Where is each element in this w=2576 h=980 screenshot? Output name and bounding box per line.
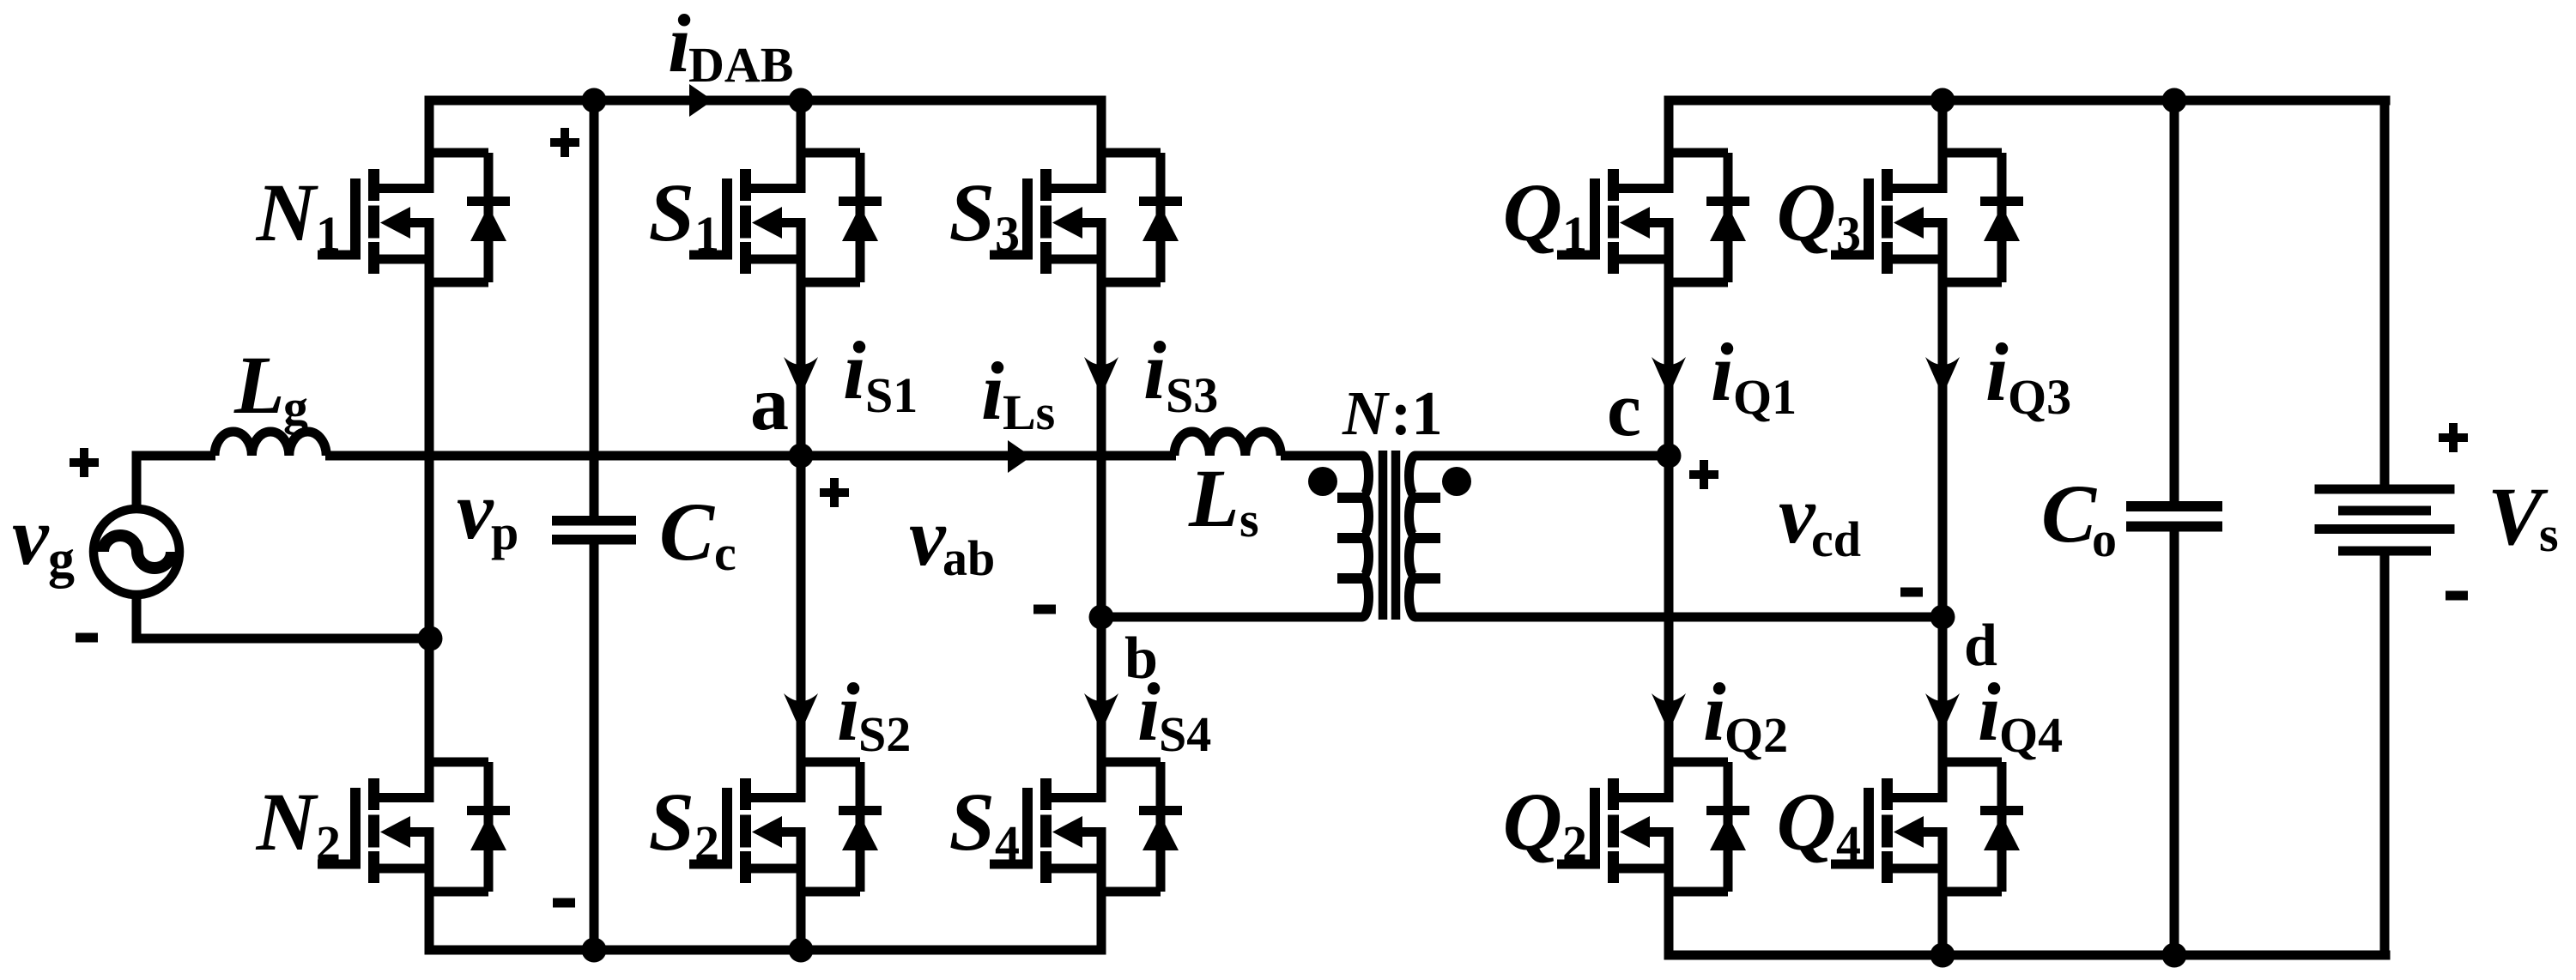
svg-text:Q1: Q1 bbox=[1503, 166, 1587, 262]
arrow iLs bbox=[1008, 440, 1032, 473]
svg-text:vab: vab bbox=[909, 491, 995, 586]
junction top bus S1 leg bbox=[789, 88, 814, 113]
svg-text:Vs: Vs bbox=[2488, 470, 2559, 562]
battery Vs plates bbox=[2315, 485, 2455, 556]
plus vab bbox=[820, 478, 849, 507]
node c junction bbox=[1657, 444, 1682, 469]
minus vcd bbox=[1900, 588, 1923, 597]
wire Q1-Q2 leg upper segment bbox=[1664, 100, 1674, 193]
wire Q3-Q4 leg middle segment bbox=[1938, 218, 1948, 802]
minus Vs bbox=[2446, 591, 2468, 601]
wire S3-S4 leg upper segment bbox=[1097, 100, 1106, 193]
junction bottom bus Cc bbox=[582, 938, 607, 963]
svg-text:N1: N1 bbox=[256, 166, 341, 262]
wire S1-S2 leg lower segment bbox=[797, 827, 806, 950]
svg-text:iQ4: iQ4 bbox=[1978, 666, 2063, 763]
transistor Q2 bbox=[1557, 762, 1749, 892]
wire top bus left bridge bbox=[425, 96, 1106, 106]
node d junction bbox=[1930, 605, 1955, 630]
svg-text:iS2: iS2 bbox=[837, 666, 911, 762]
wire vg plus to Lg bbox=[136, 456, 215, 509]
capacitor Co bottom lead bbox=[2170, 532, 2179, 956]
wire N-leg middle segment bbox=[425, 218, 434, 802]
source vg circle bbox=[94, 509, 179, 595]
wire Q3-Q4 leg upper segment bbox=[1938, 100, 1948, 193]
transistor N2 bbox=[318, 762, 510, 892]
svg-text:Q3: Q3 bbox=[1777, 166, 1861, 262]
wire secondary bottom to node d bbox=[1415, 613, 1943, 622]
transistor S1 bbox=[689, 153, 882, 282]
svg-text:S4: S4 bbox=[949, 776, 1020, 871]
junction bottom bus Q4 leg bbox=[1930, 943, 1955, 968]
transformer T1 primary winding bbox=[1281, 456, 1369, 617]
arrow iS2 bbox=[784, 693, 818, 732]
svg-text:iQ2: iQ2 bbox=[1703, 666, 1788, 763]
svg-text:iS3: iS3 bbox=[1143, 324, 1218, 423]
transformer T1 secondary winding bbox=[1409, 456, 1415, 617]
junction bottom bus S2 leg bbox=[789, 938, 814, 963]
capacitor Co plates bbox=[2126, 501, 2222, 532]
svg-text:vp: vp bbox=[457, 464, 518, 560]
junction top bus Cc bbox=[582, 88, 607, 113]
transistor S4 bbox=[990, 762, 1182, 892]
junction vg minus N-leg bbox=[418, 626, 443, 651]
inductor Ls bbox=[1174, 432, 1281, 456]
plus vg bbox=[70, 448, 99, 477]
wire vg minus to N-leg junction bbox=[136, 595, 430, 638]
wire node a line (vab plus rail) bbox=[325, 451, 1176, 461]
transistor S3 bbox=[990, 153, 1182, 282]
wire N-leg upper segment bbox=[425, 100, 434, 193]
plus Vs bbox=[2439, 423, 2468, 452]
svg-text:Q4: Q4 bbox=[1777, 776, 1861, 871]
wire top bus right bridge bbox=[1664, 96, 2391, 106]
plus vcd bbox=[1689, 460, 1718, 489]
wire bottom bus left bridge bbox=[425, 946, 1106, 955]
battery Vs top lead bbox=[2380, 100, 2390, 485]
capacitor Cc top lead bbox=[590, 100, 599, 516]
minus vg bbox=[76, 633, 98, 643]
wire Q1-Q2 leg middle segment bbox=[1664, 218, 1674, 802]
arrow iDAB bbox=[689, 84, 713, 117]
minus vab bbox=[1033, 605, 1056, 614]
svg-text:Q2: Q2 bbox=[1503, 776, 1587, 871]
svg-text:iDAB: iDAB bbox=[668, 0, 793, 93]
svg-text:S3: S3 bbox=[949, 166, 1020, 262]
transformer secondary phasing dot bbox=[1442, 467, 1471, 496]
wire S3-S4 leg lower segment bbox=[1097, 827, 1106, 950]
inductor Lg bbox=[215, 432, 326, 456]
svg-text:vg: vg bbox=[12, 490, 75, 589]
wire node b to primary bottom bbox=[1101, 613, 1362, 622]
arrow iQ4 bbox=[1925, 693, 1960, 732]
node a junction bbox=[789, 444, 814, 469]
svg-text:Co: Co bbox=[2041, 468, 2117, 567]
capacitor Cc bottom lead bbox=[590, 545, 599, 951]
transistor Q3 bbox=[1831, 153, 2023, 282]
wire N-leg lower segment bbox=[425, 827, 434, 950]
arrow iS3 bbox=[1084, 357, 1118, 396]
wire Q3-Q4 leg lower segment bbox=[1938, 827, 1948, 955]
svg-text:N2: N2 bbox=[256, 776, 341, 871]
svg-text:Cc: Cc bbox=[659, 486, 736, 581]
svg-text:vcd: vcd bbox=[1779, 469, 1861, 567]
wire S1-S2 leg middle segment bbox=[797, 218, 806, 802]
wire bottom bus right bridge bbox=[1664, 951, 2391, 960]
svg-text:iQ3: iQ3 bbox=[1985, 326, 2071, 425]
wire Q1-Q2 leg lower segment bbox=[1664, 827, 1674, 955]
svg-text:Lg: Lg bbox=[233, 339, 308, 435]
svg-text:iS1: iS1 bbox=[843, 324, 918, 423]
junction top bus Q3 leg bbox=[1930, 88, 1955, 113]
svg-text:iQ1: iQ1 bbox=[1711, 326, 1797, 425]
junction top bus Co bbox=[2162, 88, 2187, 113]
svg-text:a: a bbox=[750, 361, 789, 446]
svg-text:N:1: N:1 bbox=[1342, 378, 1443, 448]
transistor S2 bbox=[689, 762, 882, 892]
plus vp-Cc bbox=[550, 128, 579, 157]
transistor Q4 bbox=[1831, 762, 2023, 892]
battery Vs bottom lead bbox=[2380, 556, 2390, 956]
node b junction bbox=[1089, 605, 1114, 630]
transformer primary phasing dot bbox=[1308, 467, 1337, 496]
source vg sine bbox=[103, 535, 172, 568]
capacitor Co top lead bbox=[2170, 100, 2179, 501]
svg-text:iLs: iLs bbox=[981, 345, 1055, 440]
junction bottom bus Co bbox=[2162, 943, 2187, 968]
arrow iQ1 bbox=[1652, 357, 1686, 396]
wire S3-S4 leg middle segment bbox=[1097, 218, 1106, 802]
wire secondary top to node c bbox=[1415, 451, 1669, 461]
arrow iS1 bbox=[784, 357, 818, 396]
wire S1-S2 leg upper segment bbox=[797, 100, 806, 193]
minus vp-Cc bbox=[553, 898, 575, 908]
transformer T1 core bbox=[1383, 451, 1396, 620]
svg-text:b: b bbox=[1124, 626, 1158, 692]
arrow iQ2 bbox=[1652, 693, 1686, 732]
svg-text:c: c bbox=[1607, 367, 1641, 452]
capacitor Cc plates bbox=[552, 516, 636, 545]
svg-text:S2: S2 bbox=[649, 776, 719, 871]
transistor Q1 bbox=[1557, 153, 1749, 282]
svg-text:d: d bbox=[1964, 613, 1997, 679]
transistor N1 bbox=[318, 153, 510, 282]
arrow iS4 bbox=[1084, 693, 1118, 732]
svg-text:Ls: Ls bbox=[1188, 452, 1259, 547]
svg-text:S1: S1 bbox=[649, 166, 719, 262]
arrow iQ3 bbox=[1925, 357, 1960, 396]
